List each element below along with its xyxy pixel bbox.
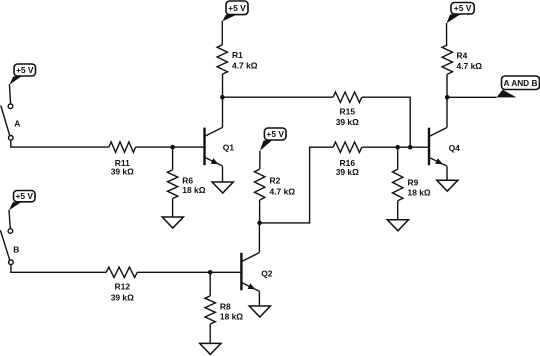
svg-text:R9: R9 xyxy=(408,178,419,188)
node Q2 collector xyxy=(257,221,262,226)
junction xyxy=(408,145,413,150)
label R12 39k xyxy=(111,282,134,303)
ground xyxy=(387,220,408,231)
label R15 39k xyxy=(336,107,359,128)
+5V supply box (R4) xyxy=(446,3,474,24)
node A xyxy=(14,118,20,128)
+5V supply box (input A) xyxy=(9,64,35,85)
label R8 18k xyxy=(220,302,243,322)
ground xyxy=(162,217,183,228)
node Q1 collector xyxy=(220,95,225,100)
ground xyxy=(200,343,221,354)
wire xyxy=(362,146,429,148)
svg-text:39 kΩ: 39 kΩ xyxy=(336,167,359,177)
transistor Q2 xyxy=(241,253,259,292)
svg-text:Q4: Q4 xyxy=(449,143,461,153)
label R2 4.7k xyxy=(270,175,296,196)
label R16 39k xyxy=(336,158,359,177)
wire xyxy=(11,265,106,272)
label R9 18k xyxy=(408,178,431,198)
wire xyxy=(446,166,448,180)
wire xyxy=(209,324,211,343)
svg-text:+5 V: +5 V xyxy=(454,3,472,13)
svg-text:18 kΩ: 18 kΩ xyxy=(408,187,431,197)
label Q4 xyxy=(449,143,461,153)
resistor R1 xyxy=(217,45,227,74)
wire xyxy=(172,199,174,218)
+5V supply box (R2) xyxy=(260,128,286,151)
label Q1 xyxy=(223,142,235,152)
wire xyxy=(446,74,448,97)
junction xyxy=(170,145,175,150)
resistor R15 xyxy=(333,92,362,102)
wire xyxy=(397,201,399,220)
wire xyxy=(259,151,261,169)
svg-text:4.7 kΩ: 4.7 kΩ xyxy=(232,61,258,71)
transistor Q4 xyxy=(429,128,447,167)
node B xyxy=(13,244,19,254)
svg-text:R8: R8 xyxy=(220,302,231,312)
svg-text:B: B xyxy=(13,244,19,254)
wire xyxy=(258,291,260,306)
wire xyxy=(137,271,241,273)
resistor R8 xyxy=(205,296,215,324)
svg-text:+5 V: +5 V xyxy=(15,191,33,201)
switch SW-A terminal bottom xyxy=(9,136,14,141)
resistor R6 xyxy=(167,170,177,199)
svg-text:Q2: Q2 xyxy=(261,269,273,279)
label R1 4.7k xyxy=(232,50,258,70)
svg-text:R1: R1 xyxy=(232,50,243,60)
wire xyxy=(447,96,496,98)
+5V supply box (R1) xyxy=(222,1,248,21)
svg-text:R15: R15 xyxy=(340,107,356,117)
wire xyxy=(259,200,261,223)
svg-text:R12: R12 xyxy=(115,282,131,292)
switch SW-A lever xyxy=(1,106,10,136)
wire xyxy=(397,147,399,169)
svg-text:39 kΩ: 39 kΩ xyxy=(111,292,134,302)
label R4 4.7k xyxy=(457,51,483,71)
ground xyxy=(212,182,233,193)
switch SW-B terminal bottom xyxy=(9,260,14,265)
resistor R11 xyxy=(109,142,136,152)
svg-text:+5 V: +5 V xyxy=(16,65,34,75)
svg-text:+5 V: +5 V xyxy=(266,129,284,139)
resistor R9 xyxy=(393,169,403,201)
switch SW-B terminal top xyxy=(8,229,13,234)
wire xyxy=(222,166,224,182)
wire xyxy=(260,147,334,223)
svg-text:Q1: Q1 xyxy=(223,142,235,152)
svg-text:4.7 kΩ: 4.7 kΩ xyxy=(270,187,296,197)
wire xyxy=(362,97,410,147)
ground xyxy=(249,306,270,317)
svg-text:39 kΩ: 39 kΩ xyxy=(111,167,134,177)
resistor R2 xyxy=(255,169,265,200)
wire xyxy=(9,210,10,229)
ground xyxy=(437,180,458,191)
label R6 18k xyxy=(182,175,205,195)
svg-text:18 kΩ: 18 kΩ xyxy=(220,312,243,322)
wire xyxy=(222,97,224,127)
switch SW-A terminal top xyxy=(8,104,13,109)
transistor Q1 xyxy=(205,127,223,166)
svg-text:R6: R6 xyxy=(182,175,193,185)
wire xyxy=(258,223,260,253)
resistor R16 xyxy=(333,142,362,152)
wire xyxy=(221,21,223,45)
+5V supply box (input B) xyxy=(9,191,35,211)
junction xyxy=(208,270,213,275)
svg-text:+5 V: +5 V xyxy=(228,3,246,13)
wire xyxy=(136,146,205,148)
output box A AND B xyxy=(497,76,540,97)
node output xyxy=(445,95,450,100)
wire xyxy=(446,23,448,45)
wire xyxy=(446,97,448,127)
svg-text:A AND B: A AND B xyxy=(504,78,538,88)
wire xyxy=(222,74,224,97)
svg-text:R4: R4 xyxy=(457,51,468,61)
junction xyxy=(395,145,400,150)
label R11 39k xyxy=(111,158,134,177)
resistor R4 xyxy=(442,45,452,74)
wire xyxy=(9,84,10,104)
svg-text:18 kΩ: 18 kΩ xyxy=(182,185,205,195)
resistor R12 xyxy=(106,267,137,277)
svg-text:A: A xyxy=(14,118,20,128)
svg-text:39 kΩ: 39 kΩ xyxy=(336,117,359,127)
switch SW-B lever xyxy=(0,230,9,259)
svg-text:4.7 kΩ: 4.7 kΩ xyxy=(457,61,483,71)
wire xyxy=(11,140,109,147)
wire xyxy=(172,147,174,170)
svg-text:R2: R2 xyxy=(270,175,281,185)
label Q2 xyxy=(261,269,273,279)
wire xyxy=(223,96,334,98)
wire xyxy=(209,272,211,296)
